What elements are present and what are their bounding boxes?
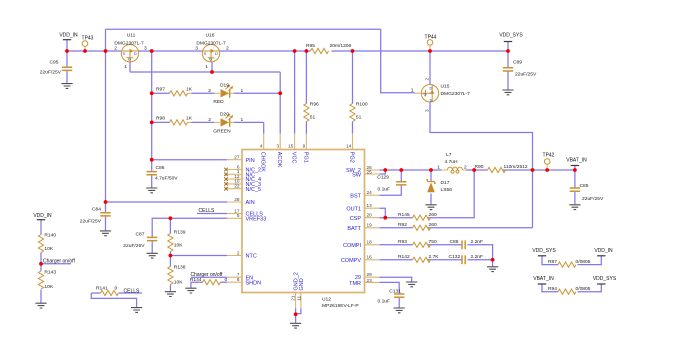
svg-text:OUT1: OUT1 (346, 206, 361, 212)
svg-text:R144: R144 (190, 277, 202, 283)
capacitor C88 (450, 239, 484, 249)
junction D19 ACOK (278, 91, 282, 95)
wire R138 leads (169, 256, 171, 292)
svg-text:27: 27 (234, 155, 240, 160)
svg-text:CELLS: CELLS (199, 208, 216, 214)
wire GND pins join (296, 309, 301, 323)
wire C87 lower lead (151, 241, 153, 253)
svg-text:D: D (430, 86, 433, 91)
svg-text:U12: U12 (322, 296, 331, 302)
svg-text:260: 260 (429, 222, 437, 228)
wire VREF33 row to C87 (152, 218, 227, 237)
svg-text:0: 0 (225, 277, 228, 283)
svg-text:15: 15 (288, 143, 294, 148)
svg-text:10K: 10K (174, 243, 183, 249)
svg-text:U16: U16 (206, 33, 215, 39)
svg-text:2: 2 (226, 46, 229, 52)
svg-text:51: 51 (356, 115, 362, 121)
junction U11 drain node (150, 49, 154, 53)
capacitor C84 (80, 207, 111, 225)
svg-text:SHDN: SHDN (246, 280, 262, 286)
svg-text:1: 1 (437, 165, 440, 171)
ground U12 GND pins (290, 323, 301, 328)
wire R143 to ground (40, 290, 42, 303)
svg-text:260: 260 (429, 212, 437, 218)
resistor R93 (398, 239, 437, 247)
wire Charger on/off stub (41, 264, 71, 271)
svg-text:22: 22 (234, 184, 240, 189)
wire gate line U11-U16-ACOK (130, 62, 280, 134)
LED D20 GREEN (213, 112, 243, 135)
svg-text:20m/1206: 20m/1206 (330, 43, 352, 49)
svg-text:L7: L7 (446, 152, 452, 158)
ground C131 (394, 308, 405, 313)
wire D19 RED row (152, 92, 281, 94)
wire VDD_IN rail top (67, 40, 311, 51)
ground R138 (165, 292, 176, 297)
wire PG1 via R96 (305, 51, 307, 134)
diode D17 LS56 (426, 180, 452, 193)
svg-text:U15: U15 (441, 83, 450, 89)
ground R141 (131, 308, 142, 313)
resistor R92 (398, 222, 437, 230)
U12 top pin numbers (260, 143, 352, 148)
resistor R97 (156, 87, 220, 96)
U12 right pin names (341, 168, 362, 287)
svg-text:COMPI: COMPI (343, 243, 362, 249)
svg-text:G: G (424, 92, 427, 97)
svg-text:10K: 10K (44, 246, 53, 252)
svg-text:U11: U11 (127, 33, 136, 39)
svg-text:D: D (215, 51, 218, 56)
svg-text:S: S (204, 51, 207, 56)
svg-text:11: 11 (296, 295, 301, 300)
svg-text:G: G (128, 57, 131, 62)
svg-text:R90: R90 (475, 164, 484, 170)
wire TMR pin29 to ground (380, 277, 412, 281)
svg-text:VDD_SYS: VDD_SYS (593, 276, 617, 282)
svg-text:RED: RED (213, 99, 224, 105)
wire C131 lower lead (398, 298, 400, 308)
power VDD_IN divider (33, 213, 52, 220)
svg-text:13: 13 (367, 203, 373, 208)
junction NTC divider (169, 254, 173, 258)
svg-text:VBAT_IN: VBAT_IN (566, 158, 587, 164)
svg-text:22uF/25V: 22uF/25V (582, 196, 604, 202)
ground COMP node (487, 267, 498, 272)
op-amp U12 body MP2619EV-LF-P (242, 150, 365, 310)
wire CELLS row (197, 213, 227, 215)
U12 bottom pin stubs (296, 293, 301, 309)
svg-text:C88: C88 (450, 239, 459, 245)
junction D17 tap (429, 168, 433, 172)
svg-text:TP43: TP43 (82, 35, 94, 41)
svg-text:24: 24 (367, 190, 373, 195)
junction TP43 (83, 49, 87, 53)
junction TP44 U15 drain (428, 49, 432, 53)
svg-text:28: 28 (234, 197, 240, 202)
svg-text:29: 29 (367, 272, 373, 277)
svg-text:R140: R140 (44, 233, 56, 239)
svg-text:2.7K: 2.7K (429, 254, 440, 260)
wire BATT row via R92 (380, 170, 533, 228)
svg-text:R142: R142 (398, 254, 410, 260)
svg-text:C132: C132 (449, 254, 461, 260)
wire TMR pin23 to C131 (380, 282, 400, 293)
resistor R143 (38, 270, 56, 291)
svg-text:0.1uF: 0.1uF (377, 187, 390, 193)
svg-text:DMG2307L-7: DMG2307L-7 (114, 41, 144, 47)
wire VDD_IN top horizontal to U15 gate (106, 28, 381, 30)
wire R140 to junction (40, 253, 42, 264)
svg-text:CHGOK: CHGOK (260, 152, 266, 173)
wire VBAT_IN stub (574, 166, 576, 171)
svg-text:Charger on/off: Charger on/off (43, 259, 75, 265)
svg-text:D19: D19 (220, 83, 229, 89)
wire R139 leads (169, 218, 171, 255)
junction VDD_SYS C89 (506, 49, 510, 53)
svg-text:AIN: AIN (246, 200, 255, 206)
capacitor C87 (123, 232, 157, 249)
U12 left pin stubs (227, 160, 242, 283)
svg-text:2: 2 (114, 46, 117, 52)
svg-text:R143: R143 (44, 270, 56, 276)
wire U15 source to VBAT node (430, 102, 533, 170)
svg-text:2: 2 (464, 165, 467, 171)
svg-text:GREEN: GREEN (213, 128, 231, 134)
svg-text:1: 1 (124, 64, 127, 70)
wire VDD_IN stub to C95 (66, 51, 68, 67)
svg-text:TP42: TP42 (543, 153, 555, 159)
wire U15 drain to rail (429, 51, 431, 84)
svg-text:D17: D17 (441, 180, 450, 186)
svg-text:10K: 10K (44, 284, 53, 290)
svg-text:SW: SW (352, 172, 362, 178)
svg-text:CSP: CSP (350, 216, 362, 222)
svg-text:0/0805: 0/0805 (576, 259, 591, 265)
svg-text:ACOK: ACOK (276, 152, 282, 168)
wire PG2 via R100 (352, 51, 354, 134)
wire AIN row (106, 201, 228, 203)
wire C89 lower lead (507, 71, 509, 89)
ground C95 (61, 84, 72, 89)
svg-text:VDD_SYS: VDD_SYS (499, 32, 523, 38)
svg-text:2: 2 (208, 88, 211, 94)
svg-text:0: 0 (115, 286, 118, 292)
junction AIN C84 (104, 200, 108, 204)
svg-text:BST: BST (350, 193, 361, 199)
svg-text:1: 1 (411, 88, 414, 94)
svg-text:C84: C84 (92, 207, 101, 213)
svg-text:22uF/25V: 22uF/25V (40, 70, 62, 76)
svg-text:CELLS: CELLS (124, 288, 141, 294)
wire VDD_IN left vertical (105, 29, 107, 212)
svg-text:9: 9 (303, 143, 306, 148)
U12 top pin names rotated (260, 152, 355, 173)
svg-text:22uF/25V: 22uF/25V (515, 72, 537, 78)
inductor L7 (437, 152, 467, 173)
resistor R90 (475, 164, 528, 173)
wire D17 upper lead (430, 170, 432, 181)
power VDD_SYS jumper R87 (532, 248, 556, 256)
svg-text:C86: C86 (156, 165, 165, 171)
testpoint TP44 (425, 34, 437, 51)
svg-text:10K: 10K (174, 280, 183, 286)
svg-text:R92: R92 (398, 222, 407, 228)
wire EN row Charger on/off (191, 276, 227, 278)
svg-text:VDD_IN: VDD_IN (33, 213, 52, 219)
svg-text:1K: 1K (186, 87, 193, 93)
ground D17 (425, 205, 436, 210)
junction R145 tap (472, 168, 476, 172)
svg-text:C89: C89 (513, 60, 522, 66)
svg-text:21: 21 (290, 295, 295, 301)
resistor R98 (156, 116, 220, 125)
svg-text:R138: R138 (174, 265, 186, 271)
wire D20 GREEN row (152, 122, 264, 133)
resistor R96 (304, 102, 319, 122)
svg-text:25: 25 (367, 169, 373, 174)
svg-text:4.7uF/50V: 4.7uF/50V (155, 175, 178, 181)
wire PIN net vertical (C86) (151, 51, 153, 171)
testpoint TP43 (82, 35, 94, 51)
junction COMP ground node (491, 258, 495, 262)
svg-text:S: S (123, 51, 126, 56)
wire VDD_SYS stub (507, 42, 509, 68)
svg-text:PG1: PG1 (302, 152, 308, 163)
ground C89 (502, 90, 513, 95)
svg-text:VCC: VCC (291, 152, 297, 164)
svg-text:23: 23 (367, 278, 373, 283)
svg-text:4: 4 (260, 143, 263, 148)
svg-text:BATT: BATT (347, 226, 361, 232)
capacitor C86 (147, 165, 179, 181)
svg-text:PG2: PG2 (348, 152, 354, 163)
svg-text:2: 2 (208, 117, 211, 123)
capacitor C132 (449, 254, 484, 264)
svg-text:22uF/25V: 22uF/25V (80, 218, 102, 224)
svg-text:DMG2307L-7: DMG2307L-7 (196, 41, 226, 47)
svg-text:3: 3 (276, 143, 279, 148)
wire U15 gate (381, 29, 415, 93)
svg-text:1: 1 (205, 64, 208, 70)
junction VDD_IN rail at C95 (65, 49, 69, 53)
power VDD_SYS jumper R94 (593, 276, 617, 284)
LED D19 RED (213, 83, 243, 106)
wire R141 to ground (91, 293, 136, 307)
power VDD_SYS top (499, 32, 523, 41)
svg-text:5: 5 (237, 213, 240, 218)
U12 top pin stubs (264, 134, 353, 150)
svg-text:R87: R87 (548, 259, 557, 265)
svg-text:C87: C87 (136, 232, 145, 238)
wire C85 leads (574, 170, 576, 204)
transistor U15 DMG2307L-7 (411, 78, 470, 113)
resistor R95 (306, 43, 352, 54)
svg-text:R97: R97 (156, 87, 165, 93)
wire C84 lower lead (105, 216, 107, 231)
wire SHDN row via R144 (191, 282, 227, 288)
junction VBAT_IN C85 (573, 168, 577, 172)
svg-text:VDD_SYS: VDD_SYS (532, 248, 556, 254)
svg-text:R141: R141 (96, 286, 108, 292)
svg-text:D: D (134, 51, 137, 56)
wire C95 lower lead (66, 71, 68, 84)
transistor U16 DMG2307L-7 (195, 33, 229, 71)
wire VDD_SYS rail (332, 50, 509, 52)
junction R98 tap (150, 121, 154, 125)
svg-text:G: G (209, 57, 212, 62)
power VBAT_IN jumper R94 (533, 276, 554, 284)
svg-text:VREF33: VREF33 (246, 217, 267, 223)
transistor U11 DMG2307L-7 (114, 33, 147, 71)
resistor R87 (548, 259, 591, 267)
junction SW pins (383, 168, 387, 172)
wire R87 jumper row (542, 256, 601, 265)
wire SW pin25 jog (380, 170, 386, 174)
capacitor C129 (377, 174, 406, 192)
junction Charger on/off divider (39, 262, 43, 266)
wire COMPV row via R142 C132 (380, 259, 493, 261)
resistor R141 (96, 286, 119, 296)
svg-text:R145: R145 (398, 212, 410, 218)
resistor R100 (350, 102, 368, 122)
svg-text:3: 3 (144, 46, 147, 52)
wire pin27 PIN row (152, 159, 227, 161)
ground C85 (569, 205, 580, 210)
svg-text:0.1uF: 0.1uF (377, 299, 390, 305)
power VDD_IN top (59, 33, 78, 40)
svg-text:NTC: NTC (246, 254, 257, 260)
resistor R140 (38, 233, 56, 253)
resistor R138 (168, 265, 186, 286)
svg-text:R100: R100 (356, 102, 368, 108)
svg-text:2: 2 (424, 78, 429, 81)
U12 left pin names (246, 158, 267, 286)
resistor R139 (168, 230, 186, 252)
svg-text:R98: R98 (156, 116, 165, 122)
svg-text:C95: C95 (50, 60, 59, 66)
svg-text:C85: C85 (580, 183, 589, 189)
U12 no-connect X marks (224, 168, 228, 172)
ground C87 (147, 253, 158, 258)
svg-text:GND: GND (299, 278, 305, 290)
ground R144 (185, 288, 196, 293)
capacitor C89 (503, 60, 537, 78)
svg-text:C131: C131 (389, 288, 401, 294)
svg-text:N/C_5: N/C_5 (246, 187, 262, 193)
wire D17 lower lead (430, 194, 432, 205)
wire VDD_IN lower divider stub (40, 220, 42, 235)
svg-text:16: 16 (367, 255, 373, 260)
junction PG1 tap (305, 49, 309, 53)
junction PG2 tap (351, 49, 355, 53)
svg-text:VDD_IN: VDD_IN (594, 248, 613, 254)
junction VDD_IN rail left vertical (104, 49, 108, 53)
svg-text:R94: R94 (548, 286, 557, 292)
svg-text:750: 750 (429, 239, 437, 245)
junction GND pins (294, 312, 298, 316)
junction PIN C86 (150, 158, 154, 162)
junction R97 tap (150, 91, 154, 95)
svg-text:R95: R95 (306, 43, 315, 49)
svg-text:PIN: PIN (246, 158, 255, 164)
resistor R144 (190, 277, 228, 285)
svg-text:110m/2512: 110m/2512 (504, 164, 528, 170)
svg-text:LS56: LS56 (441, 187, 453, 193)
junction U15 source R92 (531, 168, 535, 172)
svg-text:R139: R139 (174, 230, 186, 236)
resistor R142 (398, 254, 439, 262)
power VDD_IN jumper R87 (594, 248, 613, 256)
junction VREF33 R139 (169, 216, 173, 220)
svg-text:1: 1 (241, 88, 244, 94)
svg-text:R96: R96 (310, 102, 319, 108)
capacitor C95 (40, 60, 72, 76)
wire R141 CELLS row (91, 292, 142, 294)
wire C129 lower lead to BST (380, 185, 402, 195)
U12 bottom pin names rotated (294, 272, 305, 290)
U12 bottom pin numbers rotated (290, 295, 301, 301)
svg-text:C129: C129 (377, 174, 389, 180)
resistor R94 (548, 286, 591, 294)
junction TP42 (545, 168, 549, 172)
svg-text:DMG2307L-7: DMG2307L-7 (441, 91, 471, 97)
svg-text:3: 3 (195, 46, 198, 52)
svg-text:22uF/25V: 22uF/25V (123, 243, 145, 249)
ground R143 (35, 303, 46, 308)
ground C84 (100, 231, 111, 236)
capacitor C131 (377, 288, 404, 304)
svg-text:3: 3 (424, 109, 429, 112)
svg-text:D20: D20 (220, 112, 229, 118)
svg-text:8: 8 (237, 277, 240, 282)
wire COMP node to ground (492, 260, 494, 267)
testpoint TP42 (543, 153, 555, 171)
svg-text:TMR: TMR (349, 281, 361, 287)
resistor R145 (398, 212, 437, 220)
wire COMPI row via R93 C88 (380, 245, 493, 260)
svg-text:14: 14 (346, 143, 352, 148)
svg-text:S: S (430, 98, 433, 103)
junction C129 tap (399, 168, 403, 172)
svg-text:19: 19 (367, 223, 373, 228)
junction U16 gate (210, 70, 214, 74)
wire C129 upper lead (400, 170, 402, 181)
wire C86 lower lead (151, 175, 153, 188)
U12 right pin numbers (367, 165, 373, 283)
junction OUT1 CSP (383, 216, 387, 220)
svg-text:18: 18 (367, 240, 373, 245)
svg-text:TP44: TP44 (425, 34, 437, 40)
U12 left pin numbers (234, 155, 240, 283)
svg-text:VDD_IN: VDD_IN (59, 33, 78, 39)
capacitor C85 (570, 183, 604, 202)
svg-text:2: 2 (237, 250, 240, 255)
power VBAT_IN (566, 158, 587, 166)
svg-text:20: 20 (367, 213, 373, 218)
U12 right pin stubs (365, 170, 380, 282)
wire R94 jumper row (542, 284, 601, 292)
junction VCC tap (293, 49, 297, 53)
svg-text:COMPV: COMPV (341, 258, 362, 264)
svg-text:VBAT_IN: VBAT_IN (533, 276, 554, 282)
svg-text:51: 51 (310, 115, 316, 121)
ground C86 (146, 188, 157, 193)
svg-text:1K: 1K (186, 116, 193, 122)
svg-text:2.2nF: 2.2nF (471, 254, 484, 260)
svg-text:1: 1 (241, 117, 244, 123)
